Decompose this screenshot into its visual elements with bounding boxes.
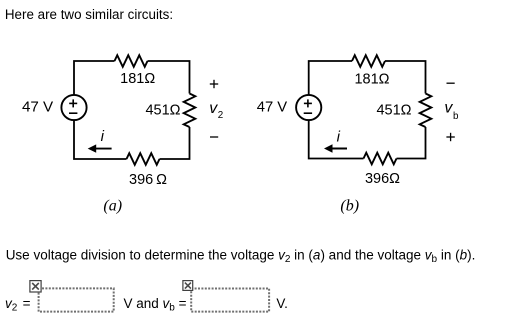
voltage source V1b minus sign (304, 112, 312, 114)
current arrow i (a) (88, 144, 112, 152)
plus polarity mark v2 (a) (210, 80, 218, 88)
svg-text:Here are two similar circuits:: Here are two similar circuits: (5, 7, 173, 22)
resistor R3a 396ohm zigzag (a) bottom (127, 153, 160, 165)
svg-text:451Ω: 451Ω (376, 103, 411, 119)
resistor R1a 181ohm zigzag (a) top (115, 55, 148, 67)
resistor R2a 451ohm zigzag (a) right (184, 94, 196, 128)
voltage source V1a plus sign (69, 99, 77, 107)
resistor R3b 396ohm zigzag (b) bottom (364, 153, 397, 165)
current arrow i (b) (324, 144, 347, 152)
wire: (a) bottom-right corner (160, 127, 190, 159)
svg-text:47 V: 47 V (257, 99, 288, 115)
voltage source V1a minus sign (69, 112, 77, 114)
svg-text:v2 =: v2 = (5, 296, 31, 314)
plus polarity mark vb (b) (446, 133, 454, 141)
svg-text:451Ω: 451Ω (145, 103, 180, 119)
minus polarity mark vb (b) (447, 82, 455, 84)
answer input box 1 (39, 288, 114, 311)
wire: (b) bottom-left corner (to source bottom) (309, 120, 364, 158)
svg-text:v2: v2 (209, 100, 223, 121)
svg-text:396 Ω: 396 Ω (129, 172, 167, 188)
svg-text:vb: vb (444, 100, 459, 122)
wire: (b) bottom-right corner (397, 127, 426, 159)
wire: (b) top-left corner (source top to top rail) (309, 61, 352, 95)
equation placeholder icon 2 (183, 281, 193, 291)
svg-text:181Ω: 181Ω (120, 71, 155, 87)
equation placeholder icon 1 (30, 281, 41, 292)
minus polarity mark v2 (a) (210, 136, 218, 138)
svg-text:i: i (101, 128, 105, 145)
svg-text:Use voltage division to determ: Use voltage division to determine the vo… (6, 247, 476, 265)
voltage source V1a circle (61, 95, 86, 120)
svg-text:(a): (a) (103, 197, 122, 214)
svg-text:V.: V. (276, 296, 288, 311)
svg-text:(b): (b) (340, 197, 359, 214)
voltage source V1b plus sign (304, 99, 312, 107)
svg-text:i: i (337, 128, 341, 145)
wire: (a) top-left corner (source top to top rail) (74, 61, 115, 95)
svg-text:396Ω: 396Ω (365, 171, 400, 187)
svg-text:181Ω: 181Ω (354, 71, 389, 87)
resistor R1b 181ohm zigzag (b) top (352, 55, 385, 67)
voltage source V1b circle (296, 95, 321, 120)
resistor R2b 451ohm zigzag (b) right (420, 94, 432, 128)
wire: (b) top-right corner (385, 61, 426, 94)
wire: (a) bottom-left corner (to source bottom) (74, 120, 127, 159)
wire: (a) top-right corner (148, 61, 190, 94)
svg-text:47 V: 47 V (22, 99, 54, 116)
svg-text:V and vb =: V and vb = (124, 296, 187, 314)
answer input box 2 (191, 289, 269, 312)
